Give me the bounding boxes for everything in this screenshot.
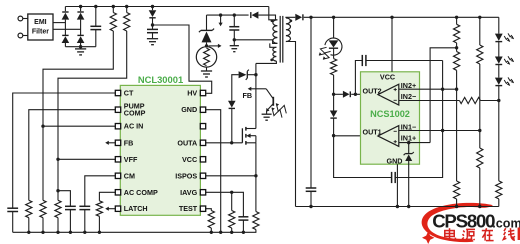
resistor R12 [40, 200, 46, 232]
junction [41, 125, 44, 128]
wire comp [334, 136, 392, 178]
svg-text:NCL30001: NCL30001 [138, 74, 183, 85]
junction [332, 16, 335, 19]
light arrows [504, 77, 513, 85]
junction [309, 205, 312, 208]
wire [333, 75, 335, 94]
MOSFET Q1 [242, 127, 256, 145]
wire AC IN [43, 125, 116, 127]
junction [455, 205, 458, 208]
svg-text:CM: CM [124, 171, 135, 180]
svg-text:VFF: VFF [124, 155, 138, 164]
wire [366, 60, 443, 62]
junction [219, 231, 222, 234]
zener Z1 [199, 29, 214, 43]
resistor R9 [459, 97, 480, 103]
ground [75, 47, 86, 55]
light arrows [272, 103, 286, 117]
logo text xian [503, 228, 515, 240]
net arrow FB [243, 87, 256, 101]
junction [151, 5, 154, 8]
resistor R17 [253, 212, 259, 233]
label FB [124, 138, 134, 147]
transformer T1 secondary winding [286, 17, 296, 206]
logo text CPS800 [432, 210, 495, 231]
junction [98, 231, 101, 234]
pin [115, 140, 120, 145]
resistor R16 [208, 211, 214, 233]
wire CM [85, 176, 116, 207]
wire drain-snubber [234, 40, 277, 44]
junction [254, 73, 257, 76]
logo mark edge [518, 228, 520, 241]
label TEST [179, 204, 198, 213]
label IN2- [401, 92, 416, 101]
wire IN2- [399, 100, 460, 102]
pin [200, 157, 205, 162]
label AC COMP [124, 188, 158, 197]
junction [407, 141, 410, 144]
pin [200, 124, 205, 129]
bridge diode D2 [62, 35, 70, 43]
wire [23, 18, 28, 20]
wire VFF [58, 158, 116, 160]
resistor R3 [331, 59, 337, 75]
wire [334, 93, 343, 95]
capacitor C10 [238, 217, 248, 233]
junction [27, 231, 30, 234]
capacitor C5 [392, 172, 396, 183]
label CM [124, 171, 135, 180]
junction [407, 205, 410, 208]
phase dot [271, 19, 274, 22]
junction node drain-clamp [205, 44, 208, 47]
light arrows [319, 47, 331, 59]
wire [248, 74, 256, 76]
optocoupler U2 transistor [256, 89, 273, 114]
wire [206, 42, 208, 46]
label IAVG [180, 188, 197, 197]
thermistor RT1 [196, 47, 216, 67]
svg-text:.com: .com [492, 216, 520, 230]
phase dot [290, 19, 293, 22]
junction [210, 231, 213, 234]
wire [53, 28, 81, 30]
junction [309, 16, 312, 19]
junction [79, 5, 82, 8]
junction [151, 23, 154, 26]
junction [230, 231, 233, 234]
wire drain [255, 63, 257, 128]
capacitor C7 [7, 208, 18, 232]
junction [455, 88, 458, 91]
junction [125, 5, 128, 8]
svg-text:AC IN: AC IN [124, 122, 144, 131]
current arrow [219, 15, 223, 26]
wire [351, 93, 378, 95]
junction [254, 174, 257, 177]
wire IN1- [399, 130, 480, 132]
svg-text:FB: FB [124, 138, 134, 147]
capacitor C4 [306, 17, 317, 206]
junction [242, 231, 245, 234]
capacitor C1 [90, 7, 101, 47]
capacitor C6 [362, 55, 366, 66]
wire [53, 22, 65, 24]
svg-text:NCS1002: NCS1002 [370, 109, 410, 119]
pin [115, 157, 120, 162]
op-amp controller U3 NCS1002 box [361, 72, 420, 166]
label HV [187, 89, 197, 98]
junction [478, 16, 481, 19]
wire [480, 100, 498, 102]
junction [69, 231, 72, 234]
ground [230, 40, 239, 52]
pin [200, 190, 205, 195]
wire [65, 46, 95, 48]
resistor R8 [477, 131, 483, 207]
wire IAVG [206, 192, 244, 217]
resistor R1 [110, 7, 116, 32]
capacitor C8 [65, 206, 76, 232]
svg-text:OUT1: OUT1 [363, 128, 382, 137]
PWM controller U1 NCL30001 box [120, 74, 200, 215]
junction [478, 129, 481, 132]
junction [332, 134, 335, 137]
wire [80, 20, 82, 47]
wire comp2 [395, 61, 442, 178]
pin [200, 206, 205, 211]
AC input terminal J2 [18, 33, 23, 38]
current arrow [209, 44, 222, 48]
wire clamp rail [207, 14, 249, 16]
wire [43, 31, 113, 126]
label VCC [182, 155, 197, 164]
label GND [181, 105, 197, 114]
pin [115, 190, 120, 195]
svg-text:Filter: Filter [32, 28, 49, 35]
optocoupler U2 LED [325, 38, 342, 59]
svg-text:FB: FB [243, 91, 253, 100]
pin [115, 90, 120, 95]
resistor R13 [55, 200, 61, 232]
diode D13 [228, 101, 236, 109]
junction [354, 93, 357, 96]
resistor R11 [26, 200, 32, 232]
wire OUT1 [334, 135, 381, 137]
ground [201, 67, 212, 77]
resistor R4 [454, 17, 460, 43]
svg-text:GND: GND [181, 105, 197, 114]
label ISPOS [175, 171, 197, 180]
svg-text:LATCH: LATCH [124, 204, 148, 213]
wire [269, 7, 278, 20]
junction [441, 88, 444, 91]
capacitor C2 [147, 29, 158, 32]
logo text dian [445, 228, 456, 240]
label PUMP COMP [124, 102, 146, 118]
wire output rail [304, 16, 499, 18]
wire [456, 89, 458, 181]
phase dot [270, 59, 273, 62]
wire [23, 35, 28, 37]
LED D12 [495, 78, 503, 101]
svg-text:VCC: VCC [182, 155, 197, 164]
svg-text:VCC: VCC [380, 72, 395, 81]
transformer T1 aux winding [256, 43, 277, 63]
junction [56, 158, 59, 161]
junction [455, 16, 458, 19]
resistor R15 [229, 211, 235, 233]
junction [230, 141, 233, 144]
wire [233, 30, 235, 40]
label OUT2 [363, 87, 382, 96]
junction [233, 38, 236, 41]
wire [333, 17, 335, 38]
wire tap [430, 48, 457, 143]
wire [58, 191, 70, 207]
svg-text:IN2+: IN2+ [401, 81, 416, 90]
wire [333, 118, 335, 136]
junction [478, 205, 481, 208]
junction [396, 205, 399, 208]
pin [115, 173, 120, 178]
wire GND pin [206, 110, 221, 233]
wire [258, 15, 275, 20]
junction [455, 46, 458, 49]
diode D8 [343, 91, 350, 98]
pin [200, 140, 205, 145]
resistor R6 [454, 181, 460, 207]
label OUTA [177, 138, 197, 147]
wire [231, 192, 233, 210]
wire [498, 101, 500, 181]
svg-text:IN2−: IN2− [401, 92, 416, 101]
pin [115, 107, 120, 112]
junction [56, 189, 59, 192]
pin [200, 173, 205, 178]
svg-text:OUT2: OUT2 [363, 87, 382, 96]
junction [230, 191, 233, 194]
svg-text:GND: GND [387, 156, 403, 165]
diode D7 [295, 14, 303, 21]
LED D11 [495, 57, 503, 78]
logo text yuan [462, 229, 475, 240]
label IN1- [401, 123, 416, 132]
junction [41, 231, 44, 234]
junction [219, 13, 222, 16]
wire IN2+ [399, 88, 457, 90]
wire [64, 20, 66, 47]
wire VCC [391, 17, 393, 72]
light arrows [504, 33, 513, 41]
pin [200, 107, 205, 112]
wire secondary ground rail [296, 206, 499, 208]
pin [115, 206, 120, 211]
wire [231, 108, 233, 143]
svg-text:AC COMP: AC COMP [124, 188, 158, 197]
logo text zai [482, 228, 494, 240]
label IN2+ [401, 81, 416, 90]
junction [497, 99, 500, 102]
bridge diode D1 [62, 12, 70, 20]
zener Z3 [239, 70, 249, 80]
svg-text:CPS800: CPS800 [432, 210, 495, 231]
wire OUTA [206, 142, 243, 144]
svg-text:CT: CT [124, 89, 134, 98]
resistor R5 [454, 43, 460, 89]
wire ISPOS [206, 175, 256, 177]
wire [355, 61, 362, 95]
resistor R2 [124, 7, 130, 32]
svg-text:EMI: EMI [34, 19, 47, 26]
junction [390, 16, 393, 19]
wire [64, 7, 66, 12]
op-amp U3A [378, 126, 399, 147]
wire [206, 15, 208, 30]
net arrow FB [105, 141, 115, 145]
logo text .com [492, 216, 520, 230]
wire [498, 17, 500, 33]
diode D5 [149, 7, 157, 18]
svg-text:OUTA: OUTA [177, 138, 197, 147]
wire GND [396, 164, 398, 206]
pin [200, 90, 205, 95]
junction [332, 93, 335, 96]
svg-text:COMP: COMP [124, 109, 146, 118]
transformer T1 core [280, 16, 283, 63]
wire bulk+ rail [65, 6, 268, 8]
wire AC COMP [99, 192, 115, 201]
junction [94, 5, 97, 8]
capacitor C3 [229, 15, 239, 30]
wire [232, 75, 239, 101]
LED D10 [495, 34, 503, 57]
label IN1+ [401, 134, 416, 143]
wire [58, 31, 127, 159]
wire [57, 159, 59, 200]
logo swoosh [422, 203, 493, 242]
wire TEST [206, 209, 212, 211]
wire [152, 18, 154, 30]
op-amp U3B [378, 84, 399, 105]
logo star [422, 231, 434, 244]
junction [441, 129, 444, 132]
wire [80, 7, 82, 12]
svg-text:ISPOS: ISPOS [175, 171, 197, 180]
junction [79, 45, 82, 48]
wire primary ground rail [13, 231, 257, 233]
wire HV [153, 25, 212, 93]
label CT [124, 89, 134, 98]
resistor R10 [496, 181, 502, 207]
ground [262, 114, 272, 120]
transformer T1 primary winding [273, 20, 278, 44]
svg-text:HV: HV [187, 89, 197, 98]
wire [255, 176, 257, 212]
wire IN1+ [399, 142, 430, 144]
EMI filter block [28, 14, 53, 40]
net arrow LATCH [105, 207, 115, 211]
wire [42, 126, 44, 200]
junction [112, 5, 115, 8]
wire CT [13, 93, 116, 208]
diode D6 [251, 12, 259, 19]
svg-text:IAVG: IAVG [180, 188, 197, 197]
wire source [255, 143, 257, 176]
junction [83, 231, 86, 234]
zener Z2 [404, 143, 414, 207]
pin [115, 124, 120, 129]
bridge diode D4 [77, 35, 85, 43]
junction [56, 231, 59, 234]
wire PUMP COMP [29, 110, 116, 201]
capacitor C9 [79, 206, 90, 232]
svg-text:TEST: TEST [179, 204, 198, 213]
label AC IN [124, 122, 144, 131]
diode D9 [330, 94, 338, 118]
AC input terminal J1 [18, 16, 23, 21]
junction [233, 13, 236, 16]
resistor R14 [96, 201, 102, 233]
label LATCH [124, 204, 148, 213]
label VFF [124, 155, 138, 164]
bridge diode D3 [77, 12, 85, 20]
ground [147, 33, 158, 45]
label OUT1 [363, 128, 382, 137]
light arrows [504, 56, 513, 64]
resistor R7 [477, 17, 483, 130]
